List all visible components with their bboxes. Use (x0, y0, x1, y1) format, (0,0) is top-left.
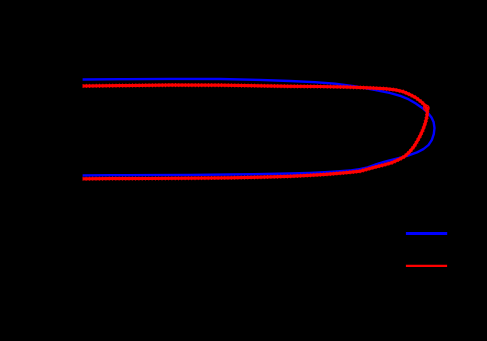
red curve (with point markers, ragged) (83, 85, 428, 179)
legend sample line: blue (406, 232, 447, 235)
red curve marker texture overlay (83, 85, 428, 179)
blue curve (smooth limit-cycle loop) (83, 79, 435, 175)
legend sample line: red (406, 265, 447, 267)
red open circle marker at right turning point (424, 105, 429, 110)
